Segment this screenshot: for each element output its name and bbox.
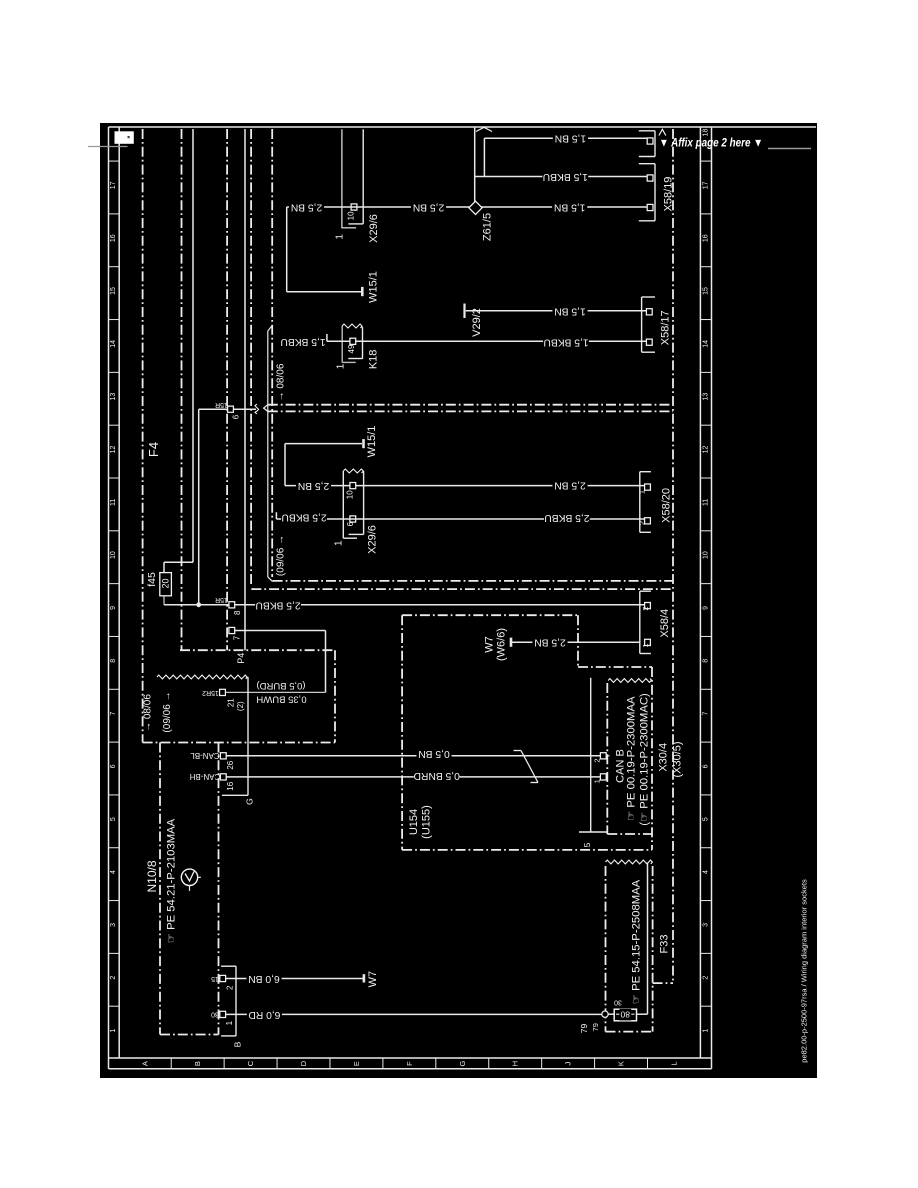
svg-text:1: 1 <box>110 1028 117 1032</box>
svg-text:6,0 BN: 6,0 BN <box>248 973 279 984</box>
svg-text:30: 30 <box>614 999 622 1006</box>
svg-text:5: 5 <box>702 817 709 821</box>
svg-text:1: 1 <box>225 1020 234 1025</box>
svg-text:2,5 BN: 2,5 BN <box>534 637 565 648</box>
svg-text:15: 15 <box>702 287 709 295</box>
svg-text:J: J <box>564 1061 573 1065</box>
svg-text:☞ PE 00.19-P-2300MAA: ☞ PE 00.19-P-2300MAA <box>626 696 638 821</box>
svg-text:X58/17: X58/17 <box>660 310 672 345</box>
svg-text:K18: K18 <box>367 350 379 370</box>
svg-text:2,5 BN: 2,5 BN <box>298 480 329 491</box>
svg-text:11: 11 <box>110 499 117 506</box>
svg-text:17: 17 <box>702 181 709 189</box>
svg-text:0,5 BNRD: 0,5 BNRD <box>414 770 460 781</box>
svg-text:U154: U154 <box>408 809 420 835</box>
svg-text:X29/6: X29/6 <box>368 214 380 243</box>
svg-text:X58/19: X58/19 <box>662 177 674 212</box>
svg-text:pe82.00-p-2500-97rsa / Wiring: pe82.00-p-2500-97rsa / Wiring diagram in… <box>800 879 809 1063</box>
svg-text:2: 2 <box>225 985 234 990</box>
svg-text:E: E <box>352 1061 361 1066</box>
svg-text:(09/06 →: (09/06 → <box>162 691 173 732</box>
svg-text:11: 11 <box>702 499 709 506</box>
svg-text:13: 13 <box>702 393 709 401</box>
svg-text:9: 9 <box>110 606 117 610</box>
svg-text:2: 2 <box>702 976 709 980</box>
svg-text:13: 13 <box>110 393 117 401</box>
svg-text:49: 49 <box>347 344 356 353</box>
svg-text:12: 12 <box>110 445 117 453</box>
svg-text:3: 3 <box>110 923 117 927</box>
svg-text:CAN-BL: CAN-BL <box>190 751 220 760</box>
svg-text:2,5 BKBU: 2,5 BKBU <box>544 512 589 523</box>
svg-text:15R: 15R <box>215 596 228 603</box>
svg-text:X58/4: X58/4 <box>659 609 671 638</box>
svg-text:6: 6 <box>232 414 241 419</box>
svg-text:14: 14 <box>702 340 709 348</box>
svg-text:(W6/6): (W6/6) <box>495 628 507 661</box>
svg-text:15R: 15R <box>215 401 228 408</box>
svg-text:☞ PE 54.21-P-2103MAA: ☞ PE 54.21-P-2103MAA <box>166 818 178 943</box>
svg-text:0,5 BN: 0,5 BN <box>418 748 449 759</box>
svg-text:26: 26 <box>226 760 235 769</box>
svg-text:1: 1 <box>333 540 344 546</box>
svg-text:(☞ PE 00.19-P-2300MAC): (☞ PE 00.19-P-2300MAC) <box>639 693 651 826</box>
svg-text:10: 10 <box>702 551 709 559</box>
svg-text:4: 4 <box>110 870 117 874</box>
svg-text:1,5 BN: 1,5 BN <box>554 306 585 317</box>
svg-text:F: F <box>405 1061 414 1066</box>
svg-text:(X30/5): (X30/5) <box>672 741 684 777</box>
svg-text:▼ Affix page 2 here ▼: ▼ Affix page 2 here ▼ <box>659 138 763 150</box>
svg-text:1,5 BN: 1,5 BN <box>554 202 585 213</box>
svg-text:7: 7 <box>702 712 709 716</box>
svg-text:0,35 BUWH: 0,35 BUWH <box>256 694 306 705</box>
svg-text:10: 10 <box>346 211 355 220</box>
svg-text:1: 1 <box>702 1028 709 1032</box>
svg-text:1,5 BN: 1,5 BN <box>555 133 586 144</box>
svg-text:8: 8 <box>702 659 709 663</box>
svg-text:f45: f45 <box>146 572 158 587</box>
svg-text:4: 4 <box>702 870 709 874</box>
svg-text:2,5 BN: 2,5 BN <box>291 202 322 213</box>
svg-text:12: 12 <box>702 445 709 453</box>
svg-text:W15/1: W15/1 <box>366 426 378 458</box>
svg-text:6: 6 <box>110 764 117 768</box>
svg-text:6: 6 <box>702 764 709 768</box>
svg-text:18: 18 <box>702 129 709 137</box>
svg-text:(0,5 BURD): (0,5 BURD) <box>256 680 305 691</box>
svg-text:2,5 BKBU: 2,5 BKBU <box>281 511 326 522</box>
svg-text:5: 5 <box>582 842 592 847</box>
svg-text:79: 79 <box>579 1024 589 1034</box>
svg-text:2: 2 <box>110 976 117 980</box>
svg-text:N10/8: N10/8 <box>145 860 159 892</box>
svg-text:6: 6 <box>346 521 355 526</box>
svg-text:1,5 BKBU: 1,5 BKBU <box>280 336 325 347</box>
svg-text:G: G <box>458 1061 467 1067</box>
svg-text:21: 21 <box>227 698 236 707</box>
svg-text:20: 20 <box>161 578 171 588</box>
svg-text:F33: F33 <box>659 935 671 954</box>
svg-text:15R2: 15R2 <box>202 689 219 696</box>
svg-text:X29/6: X29/6 <box>367 525 379 554</box>
svg-text:7: 7 <box>233 635 242 640</box>
svg-text:W7: W7 <box>484 636 496 653</box>
svg-text:F4: F4 <box>146 442 161 457</box>
svg-text:10: 10 <box>345 490 354 499</box>
svg-text:8: 8 <box>233 610 242 615</box>
svg-text:W15/1: W15/1 <box>368 271 380 303</box>
svg-text:CAN-BH: CAN-BH <box>189 772 220 781</box>
svg-text:79: 79 <box>591 1023 600 1031</box>
svg-text:6,0 RD: 6,0 RD <box>248 1009 280 1020</box>
svg-text:V29/2: V29/2 <box>471 308 483 337</box>
svg-text:P4: P4 <box>236 653 246 664</box>
svg-text:10: 10 <box>110 551 117 559</box>
svg-text:X30/4: X30/4 <box>657 743 669 772</box>
svg-text:L: L <box>669 1062 678 1066</box>
svg-text:15: 15 <box>110 287 117 295</box>
svg-text:5: 5 <box>110 817 117 821</box>
svg-text:A: A <box>140 1061 149 1066</box>
svg-text:1,5 BKBU: 1,5 BKBU <box>543 171 588 182</box>
svg-text:☞ PE 54.15-P-2508MAA: ☞ PE 54.15-P-2508MAA <box>631 879 643 1004</box>
svg-text:1: 1 <box>334 234 345 240</box>
svg-text:G: G <box>245 798 255 805</box>
svg-text:W7: W7 <box>367 971 379 988</box>
svg-text:1: 1 <box>638 490 647 494</box>
svg-text:(2): (2) <box>236 701 245 711</box>
svg-text:80: 80 <box>620 1010 630 1020</box>
svg-text:1,5 BKBU: 1,5 BKBU <box>543 337 588 348</box>
svg-text:2: 2 <box>641 606 650 610</box>
svg-text:X58/20: X58/20 <box>661 488 673 523</box>
svg-text:2: 2 <box>638 521 647 525</box>
svg-text:2: 2 <box>593 758 602 762</box>
svg-text:16: 16 <box>702 234 709 242</box>
svg-text:7: 7 <box>110 712 117 716</box>
svg-text:9: 9 <box>702 606 709 610</box>
svg-text:H: H <box>511 1061 520 1066</box>
svg-text:3: 3 <box>702 923 709 927</box>
svg-text:17: 17 <box>110 181 117 189</box>
svg-text:2,5 BN: 2,5 BN <box>413 202 444 213</box>
svg-text:2,5 BKBU: 2,5 BKBU <box>255 599 300 610</box>
svg-text:C: C <box>246 1060 255 1066</box>
svg-text:16: 16 <box>226 781 235 790</box>
svg-text:14: 14 <box>110 340 117 348</box>
svg-text:B: B <box>233 1041 243 1047</box>
svg-text:→ 08/06: → 08/06 <box>276 363 287 401</box>
svg-text:1: 1 <box>641 643 650 647</box>
svg-text:30: 30 <box>211 1011 219 1018</box>
svg-text:1: 1 <box>593 779 602 783</box>
svg-text:K: K <box>617 1061 626 1066</box>
svg-text:→ 08/06: → 08/06 <box>143 694 154 732</box>
svg-text:8: 8 <box>110 659 117 663</box>
svg-text:(U155): (U155) <box>421 805 433 839</box>
svg-text:2,5 BN: 2,5 BN <box>554 480 585 491</box>
svg-text:1: 1 <box>336 363 347 369</box>
svg-text:16: 16 <box>110 234 117 242</box>
svg-text:Z61/5: Z61/5 <box>481 213 493 241</box>
svg-text:(09/06 →: (09/06 → <box>275 535 286 576</box>
svg-text:D: D <box>299 1060 308 1066</box>
svg-text:15: 15 <box>211 975 219 982</box>
svg-text:B: B <box>193 1061 202 1066</box>
